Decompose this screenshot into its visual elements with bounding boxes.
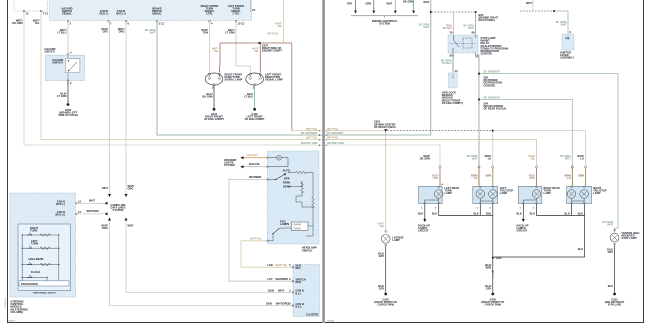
svg-text:ENGINE COMPT: ENGINE COMPT xyxy=(262,49,282,53)
wire DK GRN/WHT relay output to rear lamps xyxy=(476,53,480,186)
svg-text:TURN: TURN xyxy=(31,241,38,245)
svg-text:BLK/YEL: BLK/YEL xyxy=(249,162,261,166)
svg-text:DK GRN/WHT: DK GRN/WHT xyxy=(484,95,501,99)
svg-text:LAMP: LAMP xyxy=(445,191,453,195)
wire CAN B bus (-) WHT/GRY xyxy=(101,22,109,197)
svg-text:LG: LG xyxy=(474,176,478,180)
svg-text:BLK: BLK xyxy=(432,212,437,216)
svg-text:BUS (-): BUS (-) xyxy=(100,12,109,16)
svg-text:LG: LG xyxy=(580,156,584,160)
svg-text:AUTO: AUTO xyxy=(283,168,290,172)
node engine controls system bracket xyxy=(351,16,418,26)
svg-text:WHT: WHT xyxy=(150,31,156,35)
svg-text:SYSTEM: SYSTEM xyxy=(113,208,124,212)
wire BLK/LT BLU to ground G102 xyxy=(244,86,255,108)
left page border xyxy=(7,0,322,323)
svg-text:WHT: WHT xyxy=(102,186,108,190)
wire WHT to engine controls xyxy=(387,0,397,14)
svg-text:BLK: BLK xyxy=(608,284,613,288)
wire park feed horizontal run RED/ORG xyxy=(212,32,322,131)
svg-text:B (+): B (+) xyxy=(296,305,302,309)
svg-text:WHT/YEL: WHT/YEL xyxy=(276,263,288,267)
svg-text:WHT: WHT xyxy=(472,156,478,160)
wire WHT module to junction xyxy=(77,199,107,205)
ground G302 right xyxy=(481,293,504,307)
svg-text:DK GRN/WHT: DK GRN/WHT xyxy=(484,70,501,74)
ground G102 xyxy=(245,108,265,121)
location label behind right kick panel xyxy=(479,13,499,22)
svg-text:DK GRN: DK GRN xyxy=(202,95,212,99)
svg-text:WHT/ORG: WHT/ORG xyxy=(87,209,100,213)
svg-text:LT BLU: LT BLU xyxy=(57,31,66,35)
svg-text:WHT/YEL: WHT/YEL xyxy=(327,127,339,131)
wire BLK/YEL to interior lights xyxy=(241,162,267,168)
splice S107 xyxy=(259,42,283,53)
connector ring + RED/ORG stub into right rear turn lamp xyxy=(528,154,537,187)
svg-text:LT GRN: LT GRN xyxy=(57,94,67,98)
svg-text:FLASH: FLASH xyxy=(31,270,40,274)
headlamp rotary switch xyxy=(268,168,290,188)
steering module caption xyxy=(4,298,28,323)
svg-text:LGT: LGT xyxy=(268,277,274,281)
svg-text:DK BLU: DK BLU xyxy=(442,61,451,65)
svg-text:BRN: BRN xyxy=(486,266,492,270)
svg-text:BLK: BLK xyxy=(530,212,535,216)
wire GRY to engine controls xyxy=(347,0,357,14)
node interior lights system xyxy=(224,158,237,167)
node data link junction arrows xyxy=(101,184,134,306)
ground G302 license xyxy=(374,293,397,307)
svg-text:WHT/YEL: WHT/YEL xyxy=(327,136,339,140)
wire w1 WHT/YEL license/tail feed xyxy=(325,127,386,231)
svg-text:WHT/DK GRN: WHT/DK GRN xyxy=(327,141,344,145)
svg-text:SWITCH: SWITCH xyxy=(302,248,312,252)
svg-text:SWITCH: SWITCH xyxy=(45,50,55,54)
svg-text:LAMP: LAMP xyxy=(392,238,400,242)
svg-text:ORG: ORG xyxy=(433,176,439,180)
wire WHT/YEL from C1 pin 7 xyxy=(33,12,322,140)
processor bar xyxy=(19,281,69,286)
svg-text:DK BLU: DK BLU xyxy=(443,26,452,30)
wire labels at divider left side xyxy=(301,127,321,147)
PDC connector dashed line xyxy=(430,11,477,13)
svg-text:BLK: BLK xyxy=(418,212,423,216)
wire CAN B bus (+) WHT/ORG xyxy=(118,22,126,197)
svg-text:SYSTEM: SYSTEM xyxy=(224,163,235,167)
svg-text:BRN: BRN xyxy=(486,174,492,178)
svg-text:MUX: MUX xyxy=(296,280,302,284)
svg-text:OF REAR FASCIA): OF REAR FASCIA) xyxy=(484,107,507,111)
headlamp switch resistor network xyxy=(290,171,315,236)
wire BLK ground run right boxes xyxy=(494,204,585,257)
svg-text:YEL: YEL xyxy=(530,156,535,160)
headlamp fog lamp switch xyxy=(268,220,313,241)
wire BLK back-up lamps branch xyxy=(418,204,430,233)
svg-text:WHT: WHT xyxy=(565,156,571,160)
svg-text:DK GRN: DK GRN xyxy=(12,21,22,25)
svg-text:WHT: WHT xyxy=(89,199,95,203)
svg-text:LED: LED xyxy=(268,263,273,267)
svg-text:BLK: BLK xyxy=(578,212,583,216)
svg-text:87A: 87A xyxy=(450,54,455,58)
wire WHT/LT GRN left front turn xyxy=(225,22,250,74)
splice S302 on ground run xyxy=(485,256,502,293)
svg-text:WHT: WHT xyxy=(278,288,284,292)
svg-text:ORG/GRY: ORG/GRY xyxy=(246,153,258,157)
svg-text:YEL: YEL xyxy=(214,49,219,53)
ABS module box xyxy=(442,73,463,105)
ground G301 xyxy=(605,293,625,307)
wire WHT/YEL park lamp feed from top xyxy=(275,0,283,43)
wire CAN to cluster (-) xyxy=(126,288,293,292)
svg-text:BLK: BLK xyxy=(473,212,478,216)
svg-text:ORG: ORG xyxy=(119,30,125,34)
svg-text:LAMP: LAMP xyxy=(593,191,601,195)
svg-text:WHT: WHT xyxy=(561,23,567,27)
wire w3 WHT/YEL right rear turn feed xyxy=(325,136,537,166)
svg-text:DK GRN: DK GRN xyxy=(420,156,430,160)
svg-text:HIGH BEAM: HIGH BEAM xyxy=(29,257,44,261)
ground G101 xyxy=(204,108,224,121)
svg-text:CTRL: CTRL xyxy=(233,12,240,16)
wire LT BLU to engine controls xyxy=(403,0,415,14)
svg-text:LG: LG xyxy=(567,176,571,180)
svg-text:YEL: YEL xyxy=(379,224,384,228)
wire w4 WHT/DK GRN left rear turn feed xyxy=(325,141,440,166)
svg-text:OF REAR FASCIA: OF REAR FASCIA xyxy=(374,125,396,129)
TIPM pin connectors xyxy=(67,20,245,25)
svg-text:ORG: ORG xyxy=(102,226,108,230)
svg-text:WHT/YEL: WHT/YEL xyxy=(306,127,318,131)
svg-text:WHT: WHT xyxy=(387,2,393,6)
headlamp switch panel lamp xyxy=(268,155,288,166)
svg-text:WHT/YEL: WHT/YEL xyxy=(306,136,318,140)
svg-text:WHT/ORG: WHT/ORG xyxy=(276,302,289,306)
turn signal switch inner box xyxy=(18,224,71,295)
tail feed dashed continuation xyxy=(387,130,586,166)
svg-text:GRY: GRY xyxy=(486,287,492,291)
connector C2 bracket right edge of TIPM xyxy=(251,0,256,12)
svg-text:OF ENG COMPT): OF ENG COMPT) xyxy=(442,101,463,105)
splice S303 label xyxy=(374,120,396,132)
svg-text:BLK: BLK xyxy=(565,212,570,216)
svg-text:LT GRN: LT GRN xyxy=(225,31,235,35)
connector rings + stubs into right tail/stop lamp xyxy=(560,154,587,187)
svg-text:CIRCUIT: CIRCUIT xyxy=(517,229,528,233)
svg-text:SYSTEM: SYSTEM xyxy=(379,21,390,25)
svg-text:SIDE OF DASH): SIDE OF DASH) xyxy=(58,113,77,117)
right page border xyxy=(325,0,644,323)
svg-text:C98418: C98418 xyxy=(327,320,335,322)
wire BLK chmsl to ground xyxy=(607,245,615,293)
svg-text:10 C2: 10 C2 xyxy=(238,22,245,26)
headlamp switch pins xyxy=(267,157,269,242)
svg-text:WHT/YEL: WHT/YEL xyxy=(250,236,262,240)
svg-text:CARGO PAN): CARGO PAN) xyxy=(377,303,394,307)
svg-text:RET: RET xyxy=(296,266,302,270)
cluster box xyxy=(288,263,320,316)
connector rings + stubs into left tail/stop lamp xyxy=(467,154,494,187)
svg-text:LAMP: LAMP xyxy=(500,191,508,195)
wire WHT/BRN switch mux xyxy=(229,175,293,281)
splice S04 behind center of rear fascia xyxy=(478,95,506,110)
shifter lever assembly box xyxy=(560,34,574,60)
svg-text:OF ENG COMPT: OF ENG COMPT xyxy=(245,117,265,121)
page divider bar xyxy=(322,0,325,323)
wire BLK/DK GRN to ground G101 xyxy=(202,86,214,108)
wire BLK ground run left boxes xyxy=(432,204,493,216)
svg-text:LT BLU: LT BLU xyxy=(244,95,253,99)
wire WHT/LT BLU hazard signal xyxy=(57,22,68,53)
svg-text:KICK PANEL): KICK PANEL) xyxy=(479,18,496,22)
ground G200 xyxy=(58,103,77,117)
svg-text:YEL: YEL xyxy=(277,24,282,28)
svg-text:B PILLAR): B PILLAR) xyxy=(608,303,621,307)
svg-text:GRY: GRY xyxy=(379,254,385,258)
splice S05 in power distribution center xyxy=(478,70,502,88)
svg-text:TAN: TAN xyxy=(203,31,208,35)
lamp center high mounted stop xyxy=(602,220,639,245)
svg-text:CARGO PAN): CARGO PAN) xyxy=(485,303,502,307)
lamp box left tail/stop lamp xyxy=(473,186,514,204)
svg-text:GRN: GRN xyxy=(366,2,372,6)
svg-text:PROCESSOR: PROCESSOR xyxy=(21,282,38,286)
wire splice S05 branch to CHMSL xyxy=(480,74,618,233)
svg-text:WHT/YEL: WHT/YEL xyxy=(267,32,279,36)
svg-text:DK GRN/WHT: DK GRN/WHT xyxy=(327,131,344,135)
svg-text:GRY: GRY xyxy=(379,287,385,291)
svg-text:CENTER): CENTER) xyxy=(481,52,493,56)
svg-text:PUS: PUS xyxy=(565,38,570,40)
svg-text:GRY: GRY xyxy=(102,30,108,34)
lamp left front park/turn signal lamp xyxy=(246,73,283,90)
wire WHT/ORG module to junction xyxy=(77,209,107,215)
svg-text:BUS (+): BUS (+) xyxy=(56,213,66,217)
wire splice S04 branch to right tail/stop xyxy=(480,100,572,187)
svg-text:DK GRN: DK GRN xyxy=(403,0,413,4)
svg-text:CLUSTER: CLUSTER xyxy=(306,313,318,317)
wire WHT/YEL mux return xyxy=(241,236,293,267)
lamp box left rear turn lamp xyxy=(419,186,460,204)
svg-text:WHT: WHT xyxy=(128,224,134,228)
wire PNK/DK BLU relay coil feed xyxy=(443,13,454,35)
svg-text:BLK: BLK xyxy=(516,212,521,216)
svg-text:SIGNAL LAMP: SIGNAL LAMP xyxy=(265,78,283,82)
svg-text:WHT/BRN: WHT/BRN xyxy=(249,175,261,179)
wire GRN to engine controls xyxy=(366,0,376,14)
wire DK GRN/WHT brake switch signal xyxy=(145,22,323,135)
svg-text:SWITCH: SWITCH xyxy=(52,61,62,65)
svg-text:ASSEMBLY: ASSEMBLY xyxy=(560,56,574,60)
svg-text:CTRL: CTRL xyxy=(206,12,213,16)
svg-text:CIRCUIT: CIRCUIT xyxy=(418,229,429,233)
svg-text:WHT/DK GRN: WHT/DK GRN xyxy=(301,141,318,145)
svg-text:WHT: WHT xyxy=(526,1,532,5)
svg-text:DK GRN/WHT: DK GRN/WHT xyxy=(301,131,318,135)
connector ring + RED/ORG stub into left rear turn lamp xyxy=(420,154,444,187)
svg-text:S302: S302 xyxy=(496,256,503,260)
wire BLK license to ground xyxy=(378,246,386,293)
wire DK GRN/WHT to shifter lever xyxy=(555,11,572,34)
svg-text:TURN: TURN xyxy=(30,228,37,232)
wire ORG/GRY to interior lights xyxy=(241,153,267,159)
wire BLK back-up lamps branch right xyxy=(516,204,528,233)
svg-text:WHT: WHT xyxy=(423,25,429,29)
wire DK GRN/DK BLU to ABS module xyxy=(441,53,458,73)
lamp right front park/turn signal lamp xyxy=(205,73,242,90)
svg-text:B (-): B (-) xyxy=(296,291,301,295)
wire CAN to cluster (+) xyxy=(110,302,294,306)
svg-text:BRN: BRN xyxy=(578,174,584,178)
lamp license xyxy=(378,222,404,247)
headlamp switch box xyxy=(268,151,320,252)
svg-text:C2: C2 xyxy=(252,8,256,12)
svg-text:ORG: ORG xyxy=(128,187,134,191)
svg-text:GRY: GRY xyxy=(347,2,353,6)
svg-text:YEL: YEL xyxy=(34,21,39,25)
svg-text:DGN: DGN xyxy=(266,302,272,306)
svg-text:C98417: C98417 xyxy=(8,320,16,322)
svg-text:WHT: WHT xyxy=(423,0,429,4)
lamp box right rear turn lamp xyxy=(518,186,559,204)
shifter interlock dashed connector xyxy=(520,0,555,12)
wire DK GRN/WHT relay feed xyxy=(463,13,475,35)
svg-text:COLUMN): COLUMN) xyxy=(11,310,23,314)
svg-text:7 C1: 7 C1 xyxy=(43,12,49,16)
svg-text:WHT/BRN: WHT/BRN xyxy=(276,277,288,281)
svg-text:SIGNAL: SIGNAL xyxy=(62,12,72,16)
svg-text:1998045-A: 1998045-A xyxy=(4,298,7,308)
svg-text:SIGNAL: SIGNAL xyxy=(152,12,162,16)
svg-text:TURN SIGNAL SWITCH: TURN SIGNAL SWITCH xyxy=(33,292,56,295)
svg-text:ORG: ORG xyxy=(529,176,535,180)
svg-text:STOP LAMP: STOP LAMP xyxy=(622,236,637,240)
svg-text:BLK: BLK xyxy=(486,212,491,216)
svg-text:LAMPS: LAMPS xyxy=(280,222,289,226)
svg-text:GRY: GRY xyxy=(608,250,614,254)
steering control module box xyxy=(10,193,81,297)
svg-text:LAMP: LAMP xyxy=(544,191,552,195)
wire WHT/DK GRN from C1 pin 13 xyxy=(12,12,322,145)
svg-text:BLK: BLK xyxy=(578,247,583,251)
svg-text:BUS (-): BUS (-) xyxy=(56,202,65,206)
svg-text:CENTER): CENTER) xyxy=(484,83,496,87)
svg-text:2 C1: 2 C1 xyxy=(159,22,165,26)
wire DK GRN/WHT from top to stop lamp circuit xyxy=(418,0,430,135)
svg-text:WHT: WHT xyxy=(468,26,474,30)
lamp box right tail/stop lamp xyxy=(567,186,607,204)
svg-text:BUS (+): BUS (+) xyxy=(116,12,126,16)
wire BLK/LT GRN hazard ground xyxy=(57,82,68,104)
svg-text:YEL: YEL xyxy=(254,49,259,53)
TIPM module box (top, light blue dashed) xyxy=(50,0,252,21)
wire w2 DK GRN/WHT stop feed joins vertical xyxy=(325,131,431,137)
hazard switch box xyxy=(45,47,85,85)
relay stop lamp inhibit K1 xyxy=(448,35,508,56)
wire BLK left tail ground to G302 xyxy=(473,204,492,257)
svg-text:LG: LG xyxy=(488,156,492,160)
wire WHT/TAN right front turn xyxy=(201,22,209,74)
svg-text:OF ENG COMPT: OF ENG COMPT xyxy=(204,117,224,121)
svg-text:SIGNAL LAMP: SIGNAL LAMP xyxy=(225,78,243,82)
connector C1 dashed box top-left xyxy=(14,0,49,16)
svg-text:WHT: WHT xyxy=(607,223,613,227)
svg-text:DGN: DGN xyxy=(268,288,274,292)
